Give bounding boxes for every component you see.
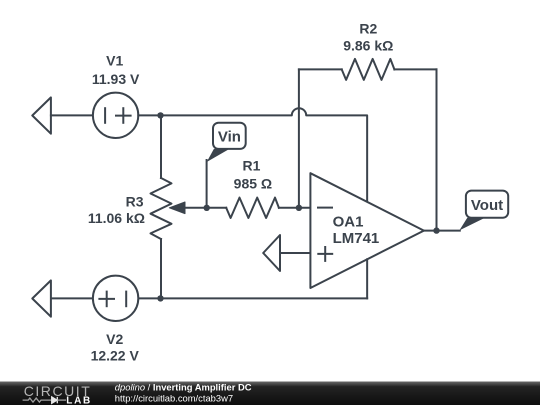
svg-text:11.93 V: 11.93 V (92, 71, 140, 87)
wire V1 to node A (138, 114, 160, 116)
wire R2 left lead (299, 68, 342, 70)
wire P1 to V1 (51, 114, 93, 116)
voltage source V2 (93, 276, 138, 321)
svg-text:12.22 V: 12.22 V (91, 347, 140, 363)
wire op-amp V- pin (366, 259, 368, 298)
svg-text:985 Ω: 985 Ω (234, 176, 272, 192)
wire P2 to V2 (51, 297, 93, 299)
node Vin junction dot (204, 205, 210, 211)
port flag P2 (left of V2) (32, 280, 51, 316)
port flag P1 (left of V1) (32, 97, 51, 133)
node B junction dot (bottom rail) (157, 295, 163, 301)
svg-text:OA1: OA1 (333, 213, 364, 230)
svg-text:R2: R2 (359, 21, 377, 37)
port flag P3 (non-inverting input) (263, 235, 280, 271)
footer bar (0, 382, 540, 405)
wire Vin tail (206, 160, 208, 208)
svg-text:R3: R3 (126, 194, 144, 210)
wire node A down to R3 (160, 115, 162, 178)
svg-text:LAB: LAB (66, 395, 92, 405)
wire top rail with hop over feedback, to op-amp V+ pin (161, 108, 368, 202)
wire R3 to bottom rail (160, 239, 162, 298)
wire R1 to op-amp inverting input (279, 207, 311, 209)
op-amp OA1 (310, 173, 424, 288)
svg-text:http://circuitlab.com/ctab3w7: http://circuitlab.com/ctab3w7 (115, 392, 233, 403)
node inverting-input junction dot (296, 205, 302, 211)
flag Vout (459, 191, 508, 231)
voltage source V1 (93, 93, 138, 138)
wire R2 right lead (394, 68, 436, 70)
svg-text:dpolino / Inverting Amplifier: dpolino / Inverting Amplifier DC (115, 381, 252, 392)
R3 wiper arrow (169, 202, 206, 214)
wire bottom rail (138, 297, 367, 299)
svg-text:V1: V1 (106, 53, 123, 69)
svg-text:R1: R1 (243, 158, 261, 174)
svg-text:Vout: Vout (471, 197, 503, 214)
svg-text:9.86 kΩ: 9.86 kΩ (343, 38, 393, 54)
node output junction dot (433, 227, 439, 233)
resistor R2 (342, 59, 395, 80)
svg-text:11.06 kΩ: 11.06 kΩ (88, 210, 145, 226)
svg-text:LM741: LM741 (333, 230, 380, 247)
svg-text:V2: V2 (106, 331, 123, 347)
svg-text:Vin: Vin (218, 128, 241, 145)
wire output (424, 230, 460, 232)
wire P3 to op-amp plus input (280, 252, 310, 254)
potentiometer R3 (151, 178, 172, 239)
node A junction dot (157, 112, 163, 118)
flag Vin (207, 123, 246, 162)
resistor R1 (226, 198, 279, 218)
logo schematic glyph (23, 397, 66, 403)
wire wiper node to R1 (207, 207, 227, 209)
wire feedback right vertical (436, 69, 438, 230)
wire feedback left vertical (298, 69, 300, 207)
